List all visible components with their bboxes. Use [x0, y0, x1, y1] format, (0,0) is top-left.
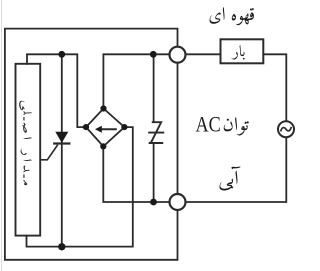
svg-text:AC: AC	[196, 112, 221, 137]
